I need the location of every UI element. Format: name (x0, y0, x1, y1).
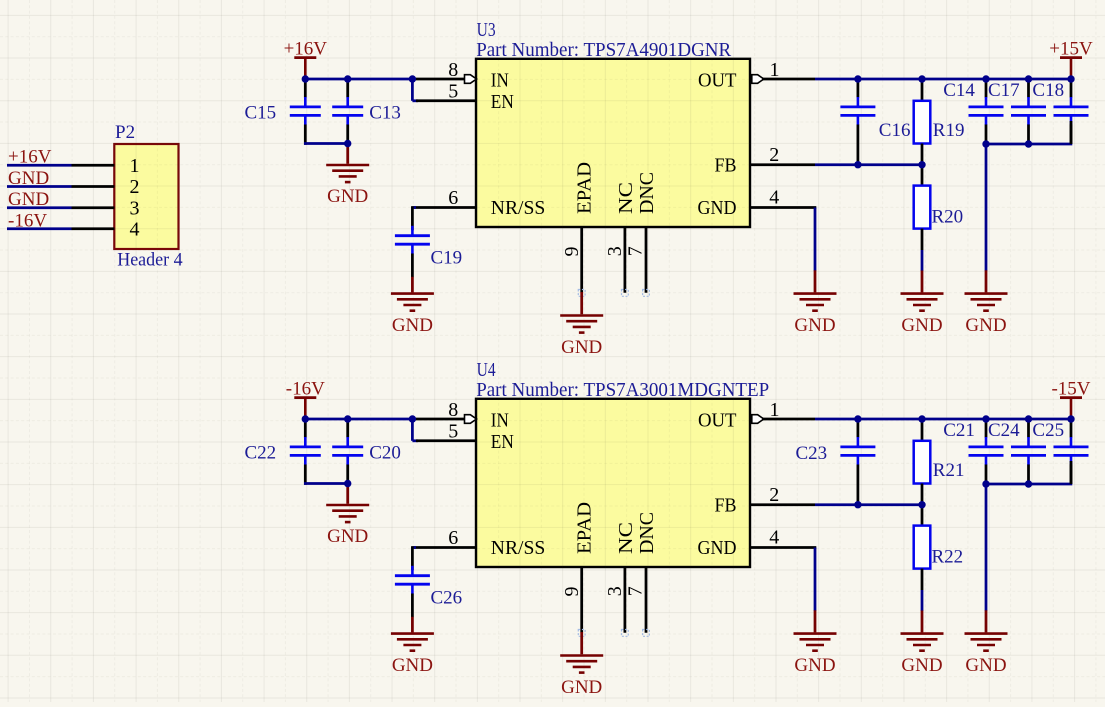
pin names right (698, 410, 737, 559)
svg-text:R22: R22 (932, 546, 964, 567)
power port -16V (286, 378, 325, 419)
wire C23 top pin (857, 419, 860, 438)
svg-text:7: 7 (624, 246, 646, 256)
svg-text:IN: IN (491, 70, 509, 92)
wire C24 bottom pin (1027, 465, 1030, 485)
wire FB (815, 163, 922, 166)
svg-text:6: 6 (448, 187, 458, 209)
wire output rail (815, 78, 1071, 81)
U4 pin 5 (EN) (416, 420, 476, 442)
capacitor C25 (1054, 437, 1089, 465)
svg-text:FB: FB (715, 155, 737, 177)
wire C17 top pin (1027, 79, 1030, 98)
wire gnd stem output caps (985, 610, 988, 632)
IC U4 body (476, 399, 750, 567)
svg-text:NC: NC (615, 522, 637, 554)
capacitor C13 (332, 97, 363, 125)
svg-text:3: 3 (604, 246, 626, 256)
resistor R22 (914, 526, 931, 569)
svg-text:GND: GND (965, 655, 1006, 676)
svg-text:GND: GND (698, 537, 737, 559)
wire C15 bottom pin (304, 125, 307, 145)
wire C16 top pin (857, 79, 860, 98)
svg-text:EN: EN (491, 431, 514, 453)
svg-text:P2: P2 (115, 122, 135, 143)
wire output caps gnd down (985, 144, 988, 271)
svg-text:NR/SS: NR/SS (491, 197, 546, 219)
wire C26 bottom pin (411, 594, 414, 618)
U4 pin 2 (FB) (750, 484, 815, 506)
U4 pin 4 (GND) (750, 527, 816, 549)
P2 pin 3 (72, 197, 140, 219)
ground input caps (326, 165, 369, 207)
svg-text:8: 8 (448, 399, 458, 421)
svg-text:GND: GND (901, 655, 942, 676)
wire gnd stem epad (580, 292, 583, 314)
wire output caps gnd down (985, 484, 988, 611)
svg-text:C21: C21 (943, 420, 975, 441)
capacitor C23 (840, 437, 875, 465)
wire gnd stem nr/ss (411, 617, 414, 633)
node input rail junctions (302, 415, 417, 487)
wire R19 bottom pin (921, 144, 924, 165)
pin names bottom (rotated) (574, 502, 658, 554)
capacitor C14 (969, 97, 1004, 125)
U3 pin 7 (DNC) (624, 227, 646, 293)
P2 pin 2 (72, 176, 140, 198)
ground divider (901, 294, 944, 337)
svg-text:C26: C26 (431, 588, 463, 609)
ground epad (560, 316, 603, 358)
svg-text:GND: GND (698, 197, 737, 219)
wire EN branch (411, 79, 414, 101)
wire R21 bottom pin (921, 484, 924, 505)
node FB junctions (854, 501, 926, 508)
svg-text:9: 9 (561, 247, 583, 257)
svg-text:GND: GND (392, 315, 433, 336)
connector P2 texts (115, 122, 183, 271)
U3 pin 9 (EPAD) (561, 227, 583, 292)
svg-text:GND: GND (901, 315, 942, 336)
wire C16 bottom pin (857, 125, 860, 165)
wire input rail (305, 78, 414, 81)
wire C13 top pin (346, 79, 349, 98)
wire gnd stem divider (921, 611, 924, 633)
wire C21 bottom pin (985, 465, 988, 485)
no-ERC markers bottom pins (578, 630, 649, 637)
capacitor C22 (290, 437, 321, 465)
wire gnd stem input caps (346, 484, 349, 504)
U4 pin 7 (DNC) (624, 567, 646, 633)
svg-text:GND: GND (561, 337, 602, 358)
svg-text:R19: R19 (933, 120, 965, 141)
svg-text:OUT: OUT (698, 70, 737, 92)
svg-text:OUT: OUT (698, 410, 737, 432)
svg-text:+16V: +16V (284, 38, 328, 59)
wire P2 pin 1 (7, 164, 72, 167)
ground divider (901, 634, 944, 677)
U4 pin 6 (NR/SS) (414, 527, 476, 549)
svg-text:3: 3 (604, 586, 626, 596)
svg-text:-16V: -16V (286, 378, 325, 399)
ground epad (560, 656, 603, 698)
U4 pin 9 (EPAD) (561, 567, 583, 632)
wire NR/SS to cap (412, 206, 416, 209)
wire NR/SS to cap (412, 546, 416, 549)
svg-text:DNC: DNC (636, 172, 658, 214)
svg-text:5: 5 (448, 420, 458, 442)
capacitor C20 (332, 437, 363, 465)
svg-text:DNC: DNC (636, 512, 658, 554)
wire FB (815, 503, 922, 506)
power port +15V (1049, 38, 1093, 79)
U4 pin 3 (NC) (604, 567, 626, 633)
wire input caps bottom (304, 482, 348, 485)
svg-text:9: 9 (561, 587, 583, 597)
capacitor C24 (1011, 437, 1046, 465)
svg-text:GND: GND (392, 655, 433, 676)
wire R22 bottom pin (921, 569, 924, 590)
svg-text:7: 7 (624, 586, 646, 596)
ground nr/ss cap (391, 294, 434, 337)
wire R22 top pin (921, 505, 924, 526)
wire EN branch (411, 419, 414, 441)
wire gnd stem pin4 (814, 610, 817, 632)
wire output rail (815, 418, 1071, 421)
svg-text:+15V: +15V (1049, 38, 1093, 59)
wire C18 bottom pin (1070, 125, 1073, 145)
svg-text:C22: C22 (245, 443, 277, 464)
svg-text:4: 4 (769, 527, 779, 549)
svg-text:FB: FB (715, 495, 737, 517)
wire gnd pin4 down (814, 548, 817, 611)
ground pin4 (794, 634, 837, 677)
U3 pin 3 (NC) (604, 227, 626, 293)
svg-text:-15V: -15V (1051, 378, 1090, 399)
svg-text:1: 1 (770, 399, 780, 421)
resistor R21 (914, 441, 931, 484)
capacitor C18 (1054, 97, 1089, 125)
svg-text:Header 4: Header 4 (117, 250, 183, 271)
svg-text:C18: C18 (1032, 80, 1064, 101)
svg-text:NR/SS: NR/SS (491, 537, 546, 559)
wire C23 bottom pin (857, 465, 860, 505)
svg-text:5: 5 (448, 80, 458, 102)
capacitor C26 (395, 566, 430, 594)
wire gnd stem output caps (985, 270, 988, 292)
U3 pin 8 (IN) (412, 59, 477, 83)
svg-text:EPAD: EPAD (574, 502, 596, 554)
wire C20 top pin (346, 419, 349, 438)
power port -15V (1051, 378, 1090, 419)
svg-text:C16: C16 (879, 120, 911, 141)
ground pin4 (794, 294, 837, 337)
node input rail junctions (302, 75, 417, 147)
wire C22 top pin (304, 419, 307, 438)
wire C21 top pin (985, 419, 988, 438)
wire R20 top pin (921, 165, 924, 186)
pin names right (698, 70, 737, 219)
wire gnd stem input caps (346, 144, 349, 164)
wire C13 bottom pin (346, 125, 349, 144)
svg-text:1: 1 (130, 155, 140, 177)
U3 pin 2 (FB) (750, 144, 815, 166)
svg-text:GND: GND (327, 186, 368, 207)
svg-text:C14: C14 (943, 80, 975, 101)
power port +16V (284, 38, 328, 79)
wire output caps bottom (986, 143, 1072, 146)
svg-text:C25: C25 (1032, 420, 1064, 441)
node output caps bottom junctions (982, 480, 1032, 487)
capacitor C16 (840, 97, 875, 125)
pin names left (491, 70, 546, 219)
svg-text:3: 3 (130, 197, 140, 219)
node output rail junctions (854, 415, 1075, 422)
svg-text:R21: R21 (933, 460, 965, 481)
svg-text:U4: U4 (477, 359, 496, 381)
ground input caps (326, 505, 369, 547)
svg-text:8: 8 (448, 59, 458, 81)
wire C25 top pin (1070, 419, 1073, 438)
svg-text:Part Number: TPS7A3001MDGNTEP: Part Number: TPS7A3001MDGNTEP (476, 379, 769, 401)
svg-text:EN: EN (491, 91, 514, 113)
capacitor C21 (969, 437, 1004, 465)
svg-text:C13: C13 (369, 103, 401, 124)
U3 pin 6 (NR/SS) (414, 187, 476, 209)
svg-text:2: 2 (769, 484, 779, 506)
wire input caps bottom (304, 142, 348, 145)
wire P2 pin 3 (7, 206, 72, 209)
svg-text:6: 6 (448, 527, 458, 549)
resistor R19 (914, 101, 931, 144)
wire P2 pin 4 (7, 227, 72, 230)
resistor R20 (914, 186, 931, 229)
wire C17 bottom pin (1027, 125, 1030, 145)
wire output caps bottom (986, 483, 1072, 486)
P2 pin 1 (72, 155, 140, 177)
svg-text:EPAD: EPAD (574, 162, 596, 214)
svg-text:GND: GND (327, 526, 368, 547)
capacitor C17 (1011, 97, 1046, 125)
wire input rail (305, 418, 414, 421)
wire gnd pin4 down (814, 208, 817, 271)
IC U3 body (476, 59, 750, 227)
wire R20 bottom pin (921, 229, 924, 250)
svg-text:4: 4 (130, 218, 140, 240)
U3 pin 5 (EN) (416, 80, 476, 102)
svg-text:Part Number: TPS7A4901DGNR: Part Number: TPS7A4901DGNR (476, 39, 732, 61)
svg-text:1: 1 (770, 59, 780, 81)
svg-text:2: 2 (130, 176, 140, 198)
ground nr/ss cap (391, 634, 434, 677)
wire P2 pin 2 (7, 185, 72, 188)
svg-text:NC: NC (615, 182, 637, 214)
svg-text:C23: C23 (796, 443, 828, 464)
svg-text:4: 4 (769, 187, 779, 209)
wire C18 top pin (1070, 79, 1073, 98)
svg-text:2: 2 (769, 144, 779, 166)
U4 pin 8 (IN) (412, 399, 477, 423)
svg-text:GND: GND (965, 315, 1006, 336)
wire C20 bottom pin (346, 465, 349, 484)
svg-text:U3: U3 (477, 19, 496, 41)
pin names left (491, 410, 546, 559)
node output rail junctions (854, 75, 1075, 82)
wire C25 bottom pin (1070, 465, 1073, 485)
svg-text:GND: GND (794, 655, 835, 676)
wire C24 top pin (1027, 419, 1030, 438)
U3 pin 1 (OUT) (752, 59, 815, 84)
U4 pin 1 (OUT) (752, 399, 815, 424)
svg-text:C20: C20 (369, 443, 401, 464)
wire R21 top pin (921, 419, 924, 441)
svg-text:IN: IN (491, 410, 509, 432)
svg-text:GND: GND (794, 315, 835, 336)
svg-text:C17: C17 (988, 80, 1020, 101)
svg-text:C15: C15 (245, 103, 277, 124)
wire C19 bottom pin (411, 254, 414, 278)
node FB junctions (854, 161, 926, 168)
node output caps bottom junctions (982, 140, 1032, 147)
connector P2 body (114, 144, 178, 249)
wire gnd stem nr/ss (411, 277, 414, 293)
no-ERC markers bottom pins (578, 290, 649, 297)
capacitor C15 (290, 97, 321, 125)
svg-text:R20: R20 (932, 206, 964, 227)
wire gnd stem divider (921, 271, 924, 293)
wire C14 top pin (985, 79, 988, 98)
pin names bottom (rotated) (574, 162, 658, 214)
ground output caps (965, 634, 1008, 677)
wire C15 top pin (304, 79, 307, 98)
ground output caps (965, 294, 1008, 337)
wire R19 top pin (921, 79, 924, 101)
wire C22 bottom pin (304, 465, 307, 485)
svg-text:C24: C24 (988, 420, 1020, 441)
wire C14 bottom pin (985, 125, 988, 145)
U3 pin 4 (GND) (750, 187, 816, 209)
capacitor C19 (395, 226, 430, 254)
P2 pin 4 (72, 218, 140, 240)
wire gnd stem pin4 (814, 270, 817, 292)
wire gnd stem epad (580, 632, 583, 654)
svg-text:C19: C19 (431, 248, 463, 269)
svg-text:GND: GND (561, 677, 602, 698)
